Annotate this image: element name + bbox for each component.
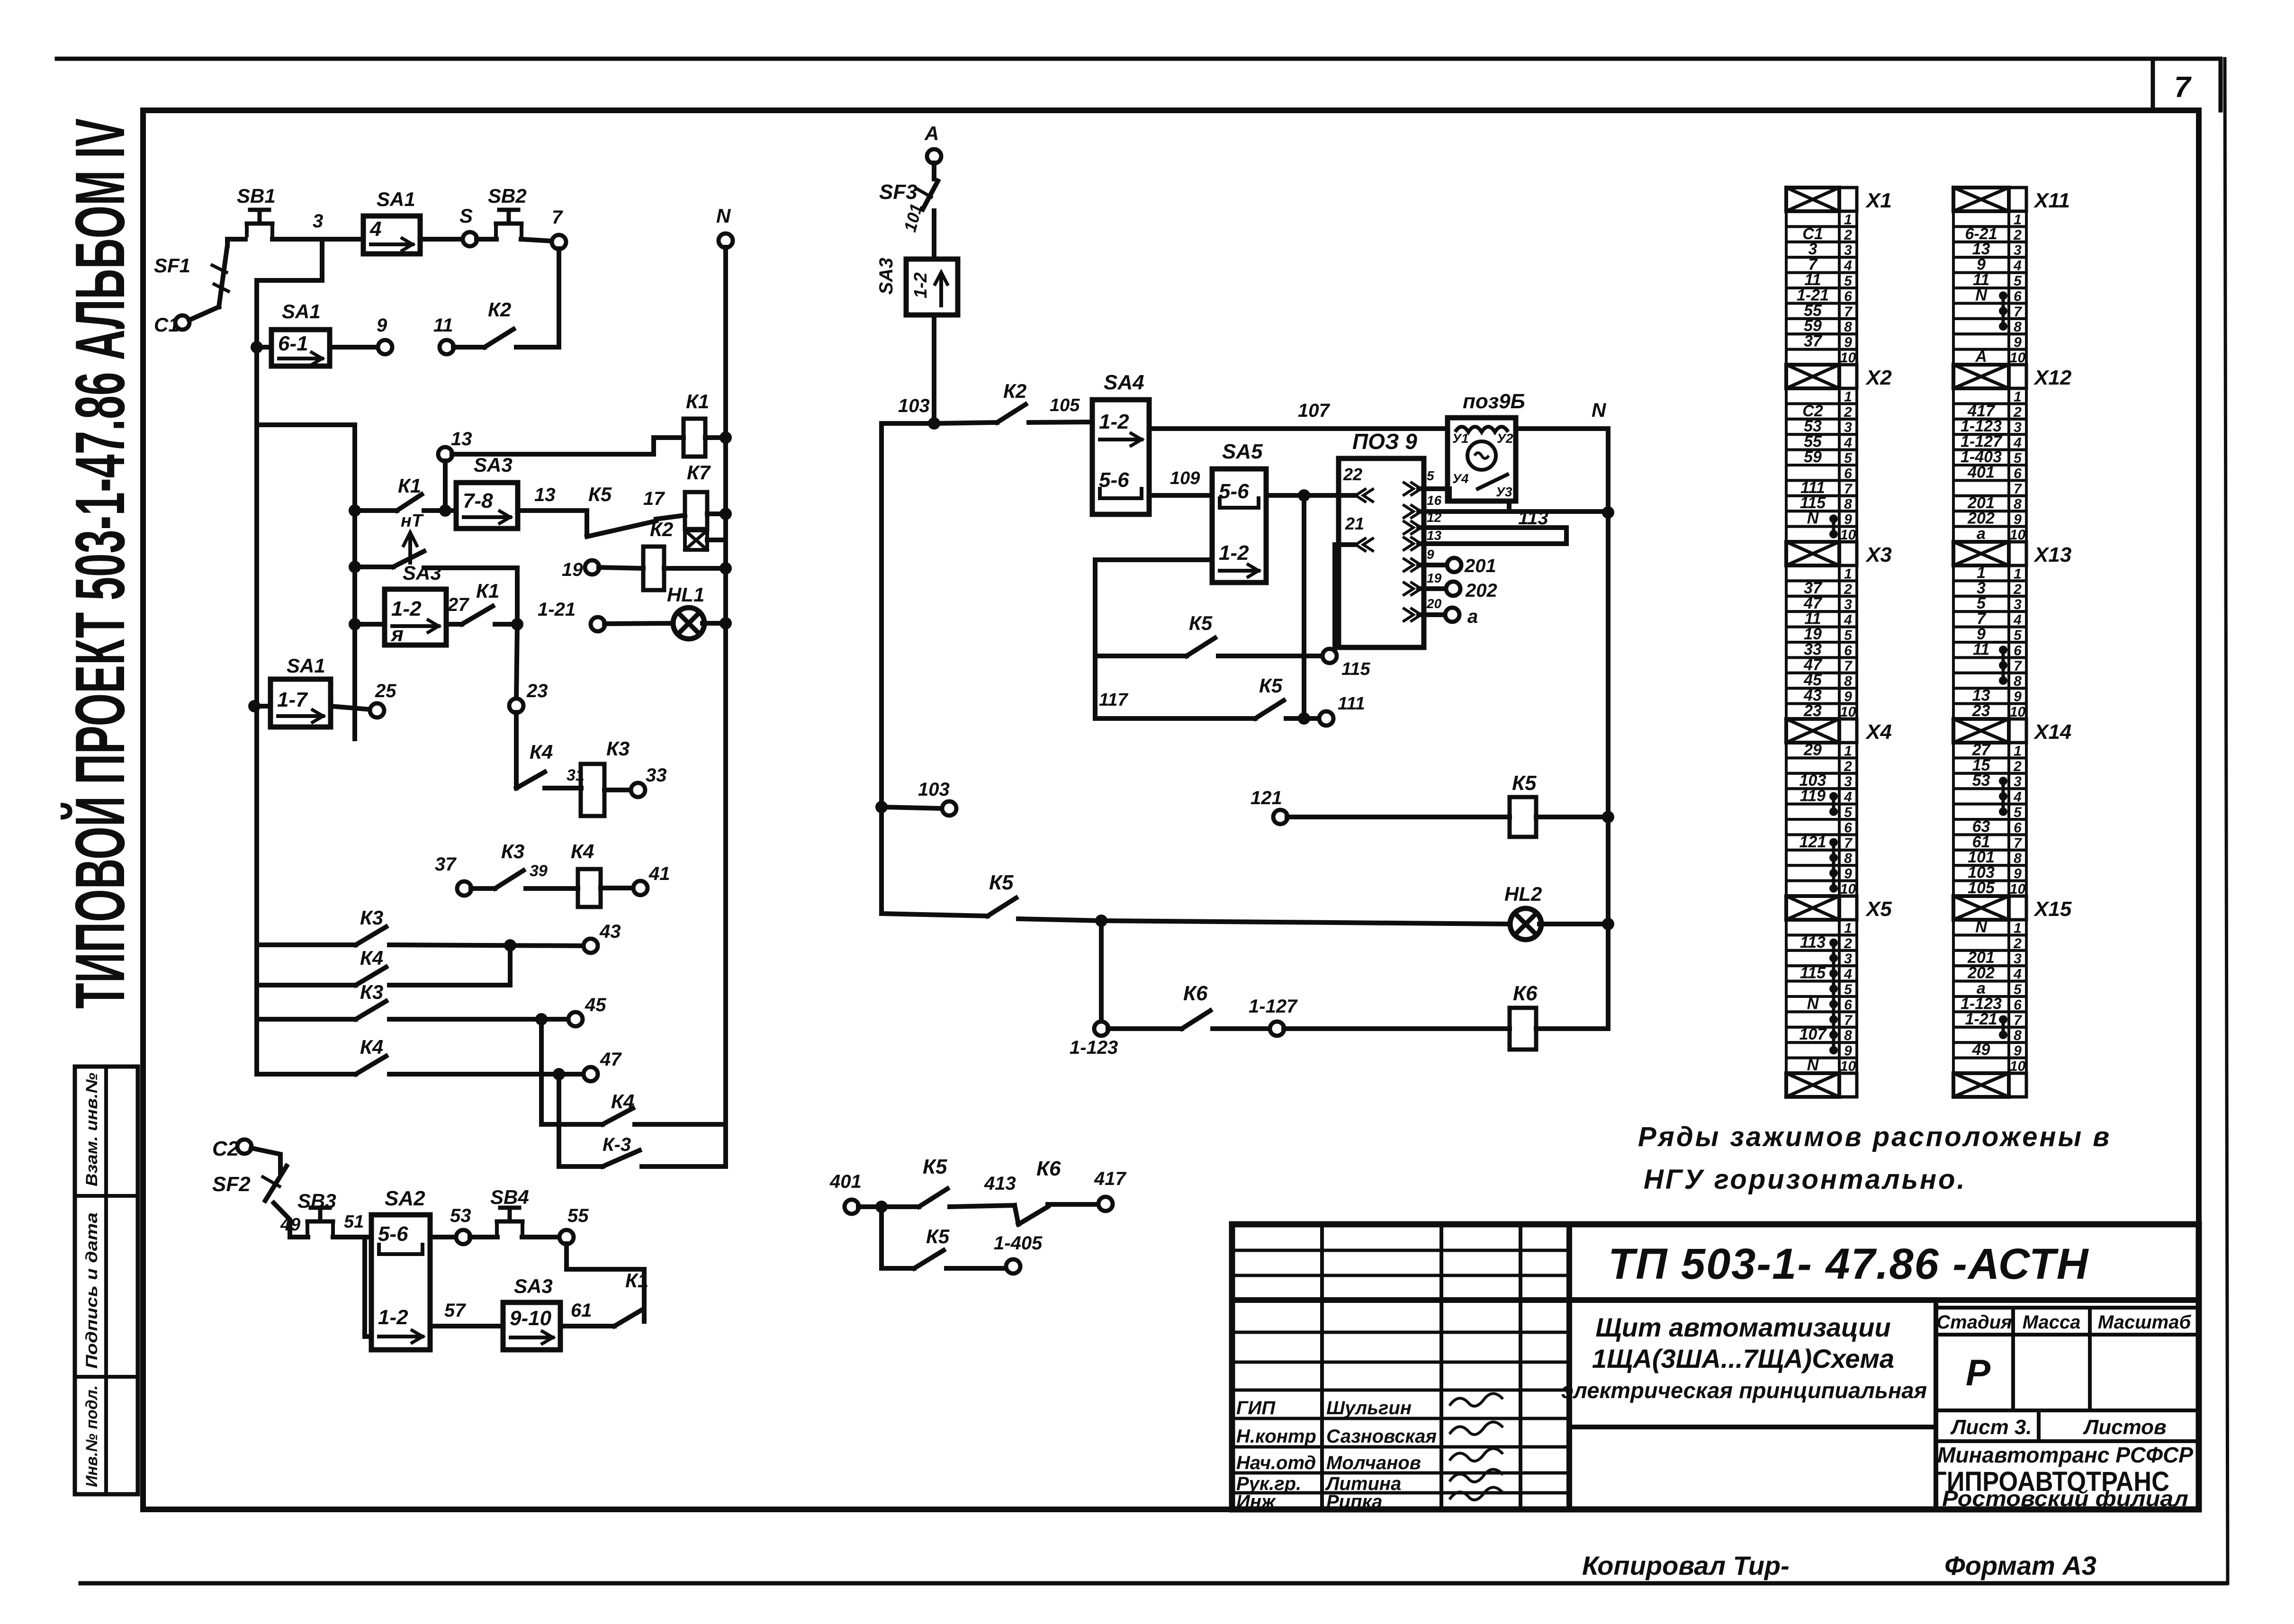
push button SB1: [237, 185, 276, 235]
contact K-3 bottom: [603, 1134, 726, 1166]
SA5 lower left wire: [1095, 560, 1212, 718]
svg-text:57: 57: [444, 1300, 466, 1321]
svg-text:53: 53: [1972, 772, 1990, 790]
signature row ГИП: [1236, 1393, 1503, 1418]
svg-text:К6: К6: [1513, 982, 1538, 1005]
svg-text:Ростовский филиал: Ростовский филиал: [1942, 1486, 2188, 1511]
svg-text:К5: К5: [989, 871, 1014, 894]
node S: [459, 205, 477, 246]
svg-text:1-127: 1-127: [1249, 996, 1298, 1017]
svg-text:201: 201: [1464, 556, 1496, 576]
copied by: [1582, 1551, 1790, 1580]
signature row Н.контр: [1236, 1422, 1503, 1447]
push button SB2: [488, 185, 527, 235]
node 111: [1319, 694, 1365, 726]
svg-text:115: 115: [1341, 659, 1370, 679]
svg-text:103: 103: [918, 779, 950, 800]
svg-text:К2: К2: [488, 298, 511, 321]
breaker SF1: [154, 245, 228, 307]
svg-text:К6: К6: [1183, 982, 1208, 1005]
svg-text:К4: К4: [530, 741, 553, 763]
svg-text:У4: У4: [1452, 471, 1469, 486]
svg-text:SA4: SA4: [1104, 371, 1144, 394]
svg-text:К7: К7: [687, 461, 711, 484]
svg-text:115: 115: [1800, 964, 1826, 982]
wire down to node 23: [516, 624, 517, 700]
title block grid: [1232, 1224, 2199, 1509]
coil K6: [1284, 982, 1608, 1050]
contact K5 lamp row: [882, 871, 1512, 927]
svg-text:Копировал Тир-: Копировал Тир-: [1582, 1551, 1790, 1580]
contact K5 row 115: [1095, 612, 1324, 656]
svg-text:Инж: Инж: [1236, 1491, 1277, 1512]
svg-text:HL2: HL2: [1504, 883, 1542, 905]
svg-text:9-10: 9-10: [510, 1307, 552, 1330]
switch SA3 section 1-2: [349, 562, 446, 646]
svg-text:117: 117: [1099, 690, 1128, 710]
wire 109: [1149, 468, 1212, 495]
svg-text:К5: К5: [1189, 612, 1213, 634]
terminal 201: [1419, 556, 1496, 576]
contact K1 row 27: [446, 580, 523, 630]
lamp HL2: [1504, 883, 1614, 940]
svg-text:119: 119: [1800, 787, 1826, 805]
contact K3 rung 43: [257, 906, 584, 951]
svg-text:3: 3: [313, 211, 323, 232]
svg-text:25: 25: [375, 681, 396, 701]
node 19: [562, 559, 599, 580]
wire to 1-123: [1099, 921, 1104, 1022]
connector pin 12: [1404, 510, 1442, 534]
svg-text:Взам. инв.№: Взам. инв.№: [83, 1073, 101, 1186]
svg-text:Х4: Х4: [1865, 720, 1892, 744]
sheet top line: [57, 57, 2217, 61]
svg-text:SA5: SA5: [1222, 440, 1263, 463]
svg-text:59: 59: [1804, 448, 1822, 466]
svg-text:401: 401: [829, 1171, 862, 1192]
svg-text:Сазновская: Сазновская: [1326, 1426, 1437, 1447]
node 41: [601, 863, 670, 895]
svg-text:ТИПОВОЙ ПРОЕКТ 503-1-47.86 АЛ: ТИПОВОЙ ПРОЕКТ 503-1-47.86 АЛЬБОМ IV: [60, 118, 139, 1009]
svg-text:121: 121: [1799, 833, 1826, 851]
svg-text:электрическая принципиальная: электрическая принципиальная: [1561, 1378, 1927, 1403]
svg-text:27: 27: [447, 594, 469, 615]
node 1-123: [1070, 1022, 1118, 1058]
wire SA5 to connector 22: [1266, 489, 1355, 502]
terminal block X11-15 bottom cross box: [1953, 188, 2070, 212]
svg-text:К2: К2: [650, 518, 673, 540]
terminal block X1-5 bottom cross box: [1786, 188, 1892, 212]
svg-text:105: 105: [1050, 395, 1080, 415]
node 33: [604, 765, 667, 797]
terminal a: [1419, 606, 1478, 627]
svg-text:401: 401: [1967, 463, 1995, 481]
svg-text:Х12: Х12: [2033, 366, 2072, 389]
stamp label Подпись и дата: [83, 1212, 101, 1369]
svg-text:поз9Б: поз9Б: [1463, 390, 1525, 413]
outer right sheet line: [2225, 59, 2228, 1583]
wire 113 bracket: [1419, 501, 1566, 544]
contact K3 row 39: [471, 840, 578, 888]
svg-text:SA1: SA1: [282, 300, 321, 323]
svg-text:413: 413: [984, 1173, 1016, 1194]
node 23: [509, 681, 548, 713]
wire SA2 lower to 57: [430, 1300, 503, 1326]
svg-text:9: 9: [1427, 547, 1434, 562]
drop 45 to K4 bottom contact: [541, 1019, 603, 1124]
svg-text:ПОЗ 9: ПОЗ 9: [1352, 429, 1417, 454]
svg-text:1ЩА(3ША...7ЩА)Схема: 1ЩА(3ША...7ЩА)Схема: [1592, 1344, 1894, 1373]
svg-text:нТ: нТ: [401, 511, 424, 531]
wire SA3 to node 103: [932, 315, 936, 423]
svg-text:N: N: [1592, 399, 1607, 421]
svg-text:К3: К3: [360, 981, 383, 1003]
node 53: [450, 1205, 471, 1244]
page number box: [2153, 59, 2221, 110]
svg-text:1-2: 1-2: [911, 272, 931, 298]
contact K4 row 31: [516, 741, 585, 788]
svg-text:4: 4: [369, 217, 381, 241]
wire node 13 label: [518, 485, 587, 511]
middle left bus: [882, 423, 934, 914]
wire SF1 to SB1: [227, 239, 245, 245]
svg-text:К5: К5: [923, 1155, 947, 1178]
svg-text:HL1: HL1: [667, 583, 704, 606]
svg-text:У1: У1: [1452, 431, 1469, 446]
svg-text:1-405: 1-405: [994, 1233, 1043, 1254]
svg-text:Нач.отд: Нач.отд: [1236, 1453, 1316, 1473]
svg-text:1-2: 1-2: [1219, 541, 1249, 565]
svg-text:11: 11: [433, 315, 453, 336]
svg-text:К1: К1: [476, 580, 499, 602]
wire K2 coil to N bus: [664, 562, 732, 574]
node 13: [438, 429, 472, 461]
svg-text:37: 37: [1804, 332, 1823, 350]
organization: [1933, 1443, 2193, 1511]
svg-text:SB1: SB1: [237, 185, 276, 207]
right N vertical: [1606, 429, 1610, 1029]
wire SA2 to node 53: [430, 1235, 457, 1239]
svg-text:21: 21: [1345, 514, 1364, 533]
svg-text:13: 13: [534, 485, 556, 505]
relay coil K4: [571, 840, 601, 907]
svg-text:SA2: SA2: [385, 1187, 425, 1210]
svg-text:5-6: 5-6: [1219, 480, 1249, 503]
contact K1 bottom: [592, 1269, 648, 1326]
switch SA2: [371, 1187, 430, 1350]
signature row Инж: [1236, 1487, 1503, 1512]
connector pin 5: [1404, 468, 1434, 495]
contact K5 row 117: [1095, 674, 1320, 725]
breaker SF3: [879, 163, 938, 209]
svg-text:S: S: [459, 205, 473, 227]
contact K4 rung 47: [257, 1036, 584, 1080]
wire SF2 to SB3: [274, 1203, 308, 1237]
svg-text:41: 41: [648, 863, 670, 884]
svg-text:Ряды зажимов расположены в: Ряды зажимов расположены в: [1638, 1122, 2111, 1152]
svg-text:К5: К5: [926, 1225, 950, 1247]
svg-text:К5: К5: [1259, 674, 1283, 697]
node 103 tap: [875, 779, 956, 816]
node 3: [313, 211, 323, 232]
svg-text:Х15: Х15: [2033, 897, 2072, 921]
svg-text:11: 11: [1973, 640, 1989, 658]
connector pin 19: [1404, 571, 1442, 595]
svg-text:Стадия: Стадия: [1936, 1312, 2012, 1333]
svg-text:К4: К4: [360, 947, 383, 969]
svg-text:22: 22: [1343, 465, 1362, 484]
svg-text:Рипка: Рипка: [1326, 1491, 1383, 1512]
svg-text:К4: К4: [611, 1090, 634, 1113]
svg-text:1-2: 1-2: [378, 1306, 408, 1329]
svg-text:Х11: Х11: [2033, 189, 2070, 212]
relay coil K3: [581, 737, 630, 816]
svg-text:К3: К3: [360, 906, 383, 929]
svg-text:К5: К5: [588, 483, 612, 505]
svg-text:7: 7: [552, 207, 563, 228]
sheet bottom line: [81, 1581, 2226, 1586]
svg-text:К2: К2: [1003, 380, 1026, 402]
svg-text:55: 55: [567, 1205, 589, 1226]
title block right grid: [1569, 1300, 2199, 1509]
wire 23 to K4 contact: [514, 712, 519, 788]
connector pin 22: [1343, 465, 1373, 502]
svg-text:ТП 503-1- 47.86 -АСТН: ТП 503-1- 47.86 -АСТН: [1608, 1240, 2089, 1288]
left stamp boxes: [75, 1067, 138, 1494]
connector pin 16: [1404, 493, 1442, 518]
svg-text:Шульгин: Шульгин: [1326, 1398, 1412, 1418]
svg-text:SA1: SA1: [287, 655, 325, 677]
terminal 202: [1419, 580, 1497, 601]
vertical from junction: [1302, 495, 1306, 718]
connector pin 21: [1345, 514, 1373, 551]
node 45: [568, 995, 606, 1026]
node N: [716, 205, 733, 248]
wire SB2 to node 7: [521, 239, 552, 241]
push button SB4: [470, 1186, 529, 1237]
node 401: [829, 1171, 862, 1214]
svg-text:К6: К6: [1036, 1157, 1061, 1180]
sheet numbers: [1950, 1416, 2167, 1439]
svg-text:К1: К1: [398, 475, 421, 497]
node 43: [584, 921, 621, 953]
svg-text:121: 121: [1250, 788, 1282, 808]
node 47: [584, 1049, 622, 1081]
switch SA3 feeder: [876, 258, 958, 315]
wire SA1 to node 9: [330, 345, 378, 350]
drop 47 to K-3 bottom contact: [559, 1074, 603, 1166]
wire K1 to N bus: [705, 431, 732, 444]
wire pin16 to N: [1419, 506, 1614, 519]
svg-text:У2: У2: [1497, 431, 1513, 446]
signature row Нач.отд: [1236, 1448, 1503, 1473]
svg-text:5-6: 5-6: [1099, 468, 1129, 492]
svg-text:SA3: SA3: [876, 258, 897, 295]
node 25: [331, 681, 396, 718]
switch SA3 section 7-8: [456, 454, 518, 529]
svg-text:9: 9: [377, 315, 387, 336]
svg-text:N: N: [1975, 286, 1988, 304]
node 115: [1322, 649, 1370, 679]
svg-text:SF1: SF1: [154, 254, 190, 277]
connector pin 20: [1404, 596, 1442, 621]
svg-text:107: 107: [1298, 400, 1330, 421]
svg-text:С2: С2: [212, 1137, 239, 1160]
svg-text:Н.контр: Н.контр: [1236, 1426, 1316, 1447]
svg-text:23: 23: [526, 681, 548, 701]
svg-text:49: 49: [1972, 1041, 1990, 1059]
svg-text:20: 20: [1426, 596, 1442, 611]
svg-text:N: N: [716, 205, 731, 227]
svg-text:417: 417: [1094, 1168, 1126, 1189]
svg-text:Формат А3: Формат А3: [1944, 1551, 2096, 1580]
svg-text:Х14: Х14: [2033, 720, 2071, 744]
stamp label Взам. инв. №: [83, 1073, 101, 1186]
wire 13 down to SA3: [443, 461, 448, 511]
svg-text:SB4: SB4: [490, 1186, 529, 1208]
N bus vertical: [723, 247, 728, 1166]
format A3: [1944, 1551, 2096, 1580]
svg-text:Х3: Х3: [1865, 543, 1892, 566]
svg-text:Х5: Х5: [1865, 897, 1892, 921]
svg-text:НГУ горизонтально.: НГУ горизонтально.: [1644, 1164, 1967, 1195]
wire HL1 to N bus: [702, 617, 732, 629]
contact K3 rung 45: [257, 981, 569, 1025]
svg-text:Листов: Листов: [2083, 1416, 2167, 1439]
svg-text:53: 53: [450, 1205, 471, 1226]
svg-text:SF3: SF3: [879, 180, 918, 204]
node 1-127: [1249, 996, 1298, 1036]
node 55: [522, 1205, 589, 1244]
svg-text:Масштаб: Масштаб: [2098, 1312, 2192, 1333]
node 1-21: [538, 599, 605, 631]
svg-text:SF2: SF2: [212, 1173, 251, 1196]
wire SA1 to S: [420, 237, 463, 242]
terminal A: [924, 122, 941, 163]
drawing frame border: [143, 110, 2199, 1509]
switch SA4: [1092, 371, 1149, 514]
svg-text:33: 33: [646, 765, 667, 786]
svg-text:7-8: 7-8: [463, 489, 493, 512]
svg-text:Молчанов: Молчанов: [1326, 1453, 1421, 1473]
svg-text:SA1: SA1: [377, 188, 415, 210]
svg-text:202: 202: [1465, 580, 1497, 601]
svg-text:16: 16: [1427, 493, 1442, 508]
svg-text:К4: К4: [571, 840, 594, 862]
wire N rail: [1516, 399, 1608, 429]
relay coil K1: [684, 390, 709, 457]
contact K6: [1108, 982, 1270, 1029]
svg-text:5-6: 5-6: [378, 1222, 408, 1246]
contact K1 upper row: [349, 475, 456, 517]
contact K5 aux: [858, 1155, 1016, 1213]
svg-text:107: 107: [1799, 1025, 1827, 1043]
switch SA1 section 4: [363, 188, 420, 254]
svg-text:Минавтотранс РСФСР: Минавтотранс РСФСР: [1937, 1443, 2193, 1467]
note line 2: [1644, 1164, 1967, 1195]
header stadia massa masshtab: [1936, 1312, 2191, 1333]
signature row Рук.гр.: [1236, 1469, 1503, 1494]
svg-text:6-1: 6-1: [278, 332, 308, 355]
terminal C1: [154, 314, 189, 336]
title text: [1561, 1312, 1927, 1403]
connector POZ9 box: [1339, 429, 1424, 647]
svg-text:47: 47: [600, 1049, 622, 1070]
svg-text:Х2: Х2: [1865, 366, 1892, 389]
svg-text:ГИП: ГИП: [1236, 1398, 1276, 1418]
node 103 junction: [898, 395, 940, 430]
branch wire to SA2 lower section: [365, 1237, 371, 1337]
svg-text:43: 43: [599, 921, 621, 942]
stage P: [1966, 1352, 1991, 1393]
left margin project title (rotated): [60, 118, 139, 1009]
svg-text:К5: К5: [1512, 772, 1537, 795]
svg-text:1-2: 1-2: [391, 597, 422, 620]
terminal C2: [212, 1137, 252, 1160]
svg-text:Масса: Масса: [2023, 1312, 2081, 1333]
link rung1 to rung2: [508, 945, 513, 985]
bus branch to second bus: [257, 425, 355, 739]
svg-text:113: 113: [1800, 933, 1826, 951]
switch SA5: [1212, 440, 1266, 583]
coil K5: [1287, 772, 1614, 837]
connector pin 13: [1404, 528, 1442, 550]
node 11: [433, 315, 454, 354]
svg-text:Инв.№ подл.: Инв.№ подл.: [83, 1385, 101, 1487]
thermal contact nT: [349, 511, 424, 573]
bus junction row B: [251, 341, 263, 353]
wire node7 down: [557, 249, 561, 347]
svg-text:5: 5: [1427, 468, 1434, 483]
svg-text:Щит автоматизации: Щит автоматизации: [1595, 1312, 1890, 1342]
motor POZ9B: [1448, 390, 1525, 501]
svg-text:19: 19: [562, 559, 583, 580]
page number 7: [2174, 71, 2192, 104]
contact K6 aux: [1015, 1157, 1099, 1224]
svg-text:SB3: SB3: [297, 1190, 336, 1212]
svg-text:1-21: 1-21: [1965, 1010, 1997, 1028]
svg-text:SA3: SA3: [514, 1275, 553, 1297]
wire C1 to SF1: [189, 307, 219, 320]
node 1-405: [994, 1233, 1043, 1274]
svg-text:SB2: SB2: [488, 185, 527, 207]
svg-text:39: 39: [530, 862, 548, 880]
note line 1: [1638, 1122, 2111, 1152]
stamp label Инв. № подл.: [83, 1385, 101, 1487]
svg-text:У3: У3: [1496, 485, 1512, 499]
contact K4 bottom: [603, 1090, 726, 1124]
node 9: [377, 315, 392, 354]
svg-text:1-123: 1-123: [1070, 1037, 1118, 1058]
svg-text:а: а: [1467, 606, 1478, 627]
svg-text:1-2: 1-2: [1099, 410, 1129, 433]
svg-text:N: N: [1807, 510, 1819, 528]
svg-text:45: 45: [585, 995, 606, 1015]
svg-text:SA3: SA3: [403, 562, 441, 584]
switch SA3 section 9-10: [503, 1275, 560, 1350]
wire SA3 to 61: [560, 1300, 592, 1326]
svg-text:Х1: Х1: [1865, 189, 1892, 212]
wire 55 down and right: [567, 1244, 644, 1321]
contact K4 rung 2: [257, 947, 510, 985]
switch SA1 section 1-7: [248, 655, 331, 727]
arrester box under K7: [685, 530, 707, 550]
svg-text:Х13: Х13: [2033, 543, 2071, 566]
contact K5 upper row: [587, 483, 685, 537]
svg-text:Подпись и дата: Подпись и дата: [83, 1212, 101, 1369]
svg-text:1-21: 1-21: [538, 599, 576, 620]
node 37: [435, 854, 471, 896]
